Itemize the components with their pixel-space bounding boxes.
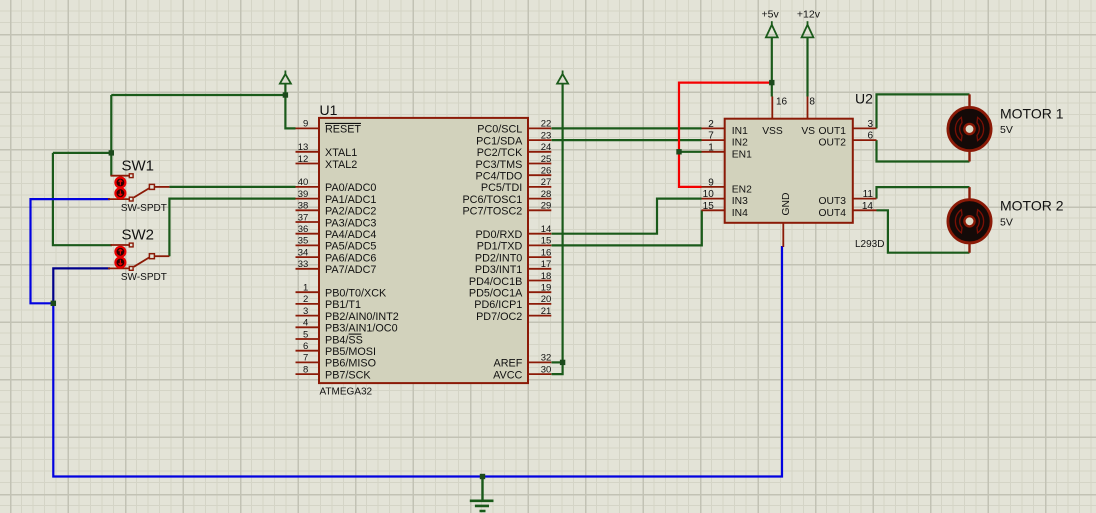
svg-text:XTAL1: XTAL1 [325, 147, 357, 159]
svg-text:PD3/INT1: PD3/INT1 [475, 264, 522, 276]
svg-text:3: 3 [303, 306, 308, 317]
svg-text:PA6/ADC6: PA6/ADC6 [325, 252, 376, 264]
svg-text:PB6/MISO: PB6/MISO [325, 358, 376, 370]
svg-text:OUT4: OUT4 [819, 208, 847, 219]
svg-text:VSS: VSS [762, 126, 783, 137]
svg-text:15: 15 [541, 236, 552, 247]
svg-text:35: 35 [298, 236, 309, 247]
svg-text:MOTOR 2: MOTOR 2 [1000, 198, 1064, 214]
svg-text:IN4: IN4 [732, 208, 748, 219]
svg-text:26: 26 [541, 166, 552, 177]
svg-text:IN2: IN2 [732, 138, 748, 149]
svg-text:PA7/ADC7: PA7/ADC7 [325, 264, 376, 276]
svg-text:39: 39 [298, 189, 309, 200]
svg-text:IN3: IN3 [732, 196, 748, 207]
svg-text:33: 33 [298, 259, 309, 270]
svg-text:6: 6 [303, 341, 308, 352]
svg-text:PD4/OC1B: PD4/OC1B [469, 276, 522, 288]
svg-text:PB4/SS: PB4/SS [325, 334, 363, 346]
svg-text:SW-SPDT: SW-SPDT [121, 203, 167, 214]
svg-text:1: 1 [708, 142, 714, 153]
svg-text:PD1/TXD: PD1/TXD [477, 241, 523, 253]
svg-text:GND: GND [781, 193, 792, 216]
svg-text:U2: U2 [855, 91, 873, 107]
svg-text:4: 4 [303, 318, 308, 329]
svg-text:OUT1: OUT1 [819, 126, 847, 137]
svg-text:24: 24 [541, 142, 552, 153]
svg-text:17: 17 [541, 259, 552, 270]
svg-text:PD6/ICP1: PD6/ICP1 [474, 299, 522, 311]
svg-text:7: 7 [303, 353, 308, 364]
svg-text:OUT2: OUT2 [819, 138, 847, 149]
svg-text:14: 14 [541, 224, 552, 235]
svg-text:PB7/SCK: PB7/SCK [325, 369, 371, 381]
svg-text:36: 36 [298, 224, 309, 235]
svg-text:PA0/ADC0: PA0/ADC0 [325, 182, 376, 194]
svg-text:10: 10 [703, 189, 715, 200]
svg-text:34: 34 [298, 247, 309, 258]
svg-text:20: 20 [541, 294, 552, 305]
svg-text:L293D: L293D [855, 239, 884, 250]
svg-text:23: 23 [541, 130, 552, 141]
svg-text:PB5/MOSI: PB5/MOSI [325, 346, 376, 358]
svg-text:25: 25 [541, 154, 552, 165]
svg-text:SW1: SW1 [122, 157, 155, 174]
svg-text:2: 2 [303, 294, 308, 305]
svg-text:+5v: +5v [762, 8, 780, 20]
svg-text:11: 11 [863, 189, 874, 200]
svg-text:OUT3: OUT3 [819, 196, 847, 207]
svg-text:8: 8 [809, 97, 815, 108]
svg-text:2: 2 [708, 119, 714, 130]
svg-text:16: 16 [776, 97, 788, 108]
svg-text:PB3/AIN1/OC0: PB3/AIN1/OC0 [325, 323, 398, 335]
svg-text:PC4/TDO: PC4/TDO [476, 171, 523, 183]
svg-text:30: 30 [541, 364, 552, 375]
svg-text:38: 38 [298, 201, 309, 212]
svg-text:ATMEGA32: ATMEGA32 [320, 387, 373, 398]
svg-text:5: 5 [303, 329, 308, 340]
svg-text:PD0/RXD: PD0/RXD [475, 229, 522, 241]
svg-text:5V: 5V [1000, 124, 1013, 136]
svg-text:9: 9 [708, 177, 714, 188]
svg-text:AREF: AREF [494, 358, 523, 370]
svg-text:32: 32 [541, 353, 552, 364]
svg-text:PC2/TCK: PC2/TCK [477, 147, 523, 159]
svg-text:16: 16 [541, 247, 552, 258]
svg-text:8: 8 [303, 364, 308, 375]
svg-text:MOTOR 1: MOTOR 1 [1000, 105, 1064, 121]
svg-text:PA1/ADC1: PA1/ADC1 [325, 194, 376, 206]
svg-text:PB2/AIN0/INT2: PB2/AIN0/INT2 [325, 311, 399, 323]
svg-text:PA5/ADC5: PA5/ADC5 [325, 241, 376, 253]
svg-text:PC0/SCL: PC0/SCL [477, 124, 522, 136]
svg-text:40: 40 [298, 177, 309, 188]
svg-text:PC1/SDA: PC1/SDA [476, 135, 523, 147]
svg-text:14: 14 [862, 201, 874, 212]
svg-text:PA2/ADC2: PA2/ADC2 [325, 206, 376, 218]
svg-text:1: 1 [303, 283, 308, 294]
svg-text:5V: 5V [1000, 217, 1013, 229]
svg-text:PD5/OC1A: PD5/OC1A [469, 288, 523, 300]
svg-text:+12v: +12v [797, 8, 821, 20]
svg-text:22: 22 [541, 119, 552, 130]
svg-text:19: 19 [541, 283, 552, 294]
svg-text:13: 13 [298, 142, 309, 153]
svg-text:RESET: RESET [325, 124, 361, 136]
svg-text:PB0/T0/XCK: PB0/T0/XCK [325, 288, 387, 300]
svg-text:XTAL2: XTAL2 [325, 159, 357, 171]
svg-text:15: 15 [703, 201, 715, 212]
svg-text:EN1: EN1 [732, 149, 752, 160]
svg-text:37: 37 [298, 212, 309, 223]
svg-text:IN1: IN1 [732, 126, 748, 137]
svg-text:PC3/TMS: PC3/TMS [476, 159, 523, 171]
svg-text:28: 28 [541, 189, 552, 200]
svg-text:27: 27 [541, 177, 552, 188]
svg-text:PD2/INT0: PD2/INT0 [475, 252, 522, 264]
svg-text:12: 12 [298, 154, 309, 165]
svg-text:7: 7 [708, 131, 714, 142]
svg-text:PB1/T1: PB1/T1 [325, 299, 361, 311]
svg-text:PA3/ADC3: PA3/ADC3 [325, 217, 376, 229]
svg-text:3: 3 [867, 119, 873, 130]
svg-text:SW-SPDT: SW-SPDT [121, 272, 167, 283]
svg-text:PC6/TOSC1: PC6/TOSC1 [462, 194, 522, 206]
svg-text:VS: VS [801, 126, 815, 137]
svg-text:21: 21 [541, 306, 552, 317]
svg-text:U1: U1 [320, 102, 338, 118]
svg-text:AVCC: AVCC [493, 369, 522, 381]
svg-text:18: 18 [541, 271, 552, 282]
svg-text:6: 6 [867, 131, 873, 142]
svg-text:SW2: SW2 [122, 227, 155, 244]
svg-text:29: 29 [541, 201, 552, 212]
svg-text:PC5/TDI: PC5/TDI [481, 182, 522, 194]
svg-text:EN2: EN2 [732, 185, 752, 196]
svg-text:9: 9 [303, 119, 308, 130]
svg-text:PA4/ADC4: PA4/ADC4 [325, 229, 376, 241]
svg-text:PC7/TOSC2: PC7/TOSC2 [462, 206, 522, 218]
svg-text:PD7/OC2: PD7/OC2 [476, 311, 522, 323]
